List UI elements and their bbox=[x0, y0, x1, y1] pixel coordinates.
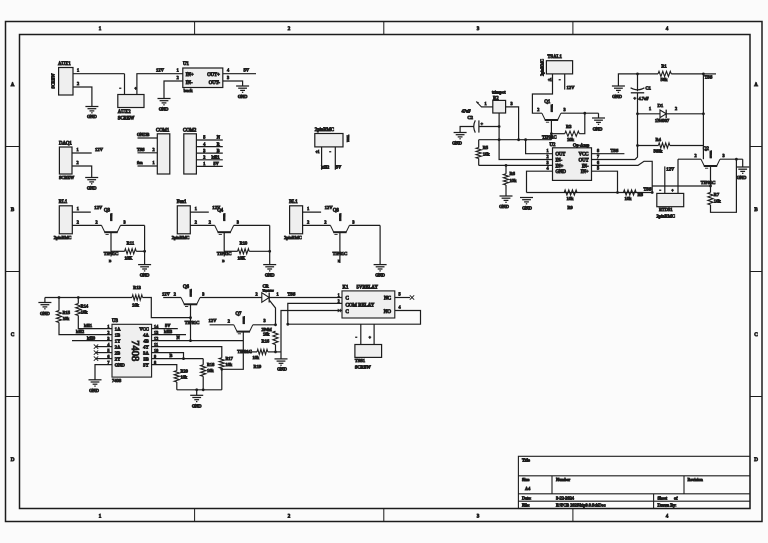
svg-text:2pinRMC: 2pinRMC bbox=[657, 213, 675, 218]
svg-text:TIP31C: TIP31C bbox=[550, 105, 552, 113]
svg-text:2pinRMC: 2pinRMC bbox=[540, 59, 545, 76]
svg-text:2: 2 bbox=[324, 219, 326, 224]
svg-text:Title: Title bbox=[522, 458, 530, 463]
wire Q6 collector 12V bbox=[162, 291, 181, 297]
svg-text:GND: GND bbox=[612, 94, 622, 99]
ground (Q2) bbox=[736, 159, 749, 180]
svg-text:kill1: kill1 bbox=[212, 155, 220, 160]
svg-text:2: 2 bbox=[203, 155, 205, 160]
svg-text:10k: 10k bbox=[510, 178, 518, 183]
ground (DAQ1) bbox=[85, 178, 98, 191]
svg-text:10k: 10k bbox=[63, 316, 70, 321]
resistor R5 10k bbox=[476, 140, 490, 166]
wire relay pin4 NO loop bbox=[288, 304, 421, 324]
wire Q1 emitter to ground bbox=[561, 107, 599, 113]
svg-text:560k: 560k bbox=[654, 149, 664, 154]
wire Q7 base bbox=[242, 332, 244, 352]
wire AUX1 pin2 to ground bbox=[73, 81, 92, 107]
svg-text:4A: 4A bbox=[143, 332, 149, 337]
wire left rail mid bbox=[637, 93, 639, 146]
ground (resistor bus) bbox=[190, 390, 203, 409]
wire Q2 collector bbox=[678, 153, 701, 159]
wire 2pinRMC pin2 5V bbox=[335, 147, 342, 170]
svg-text:1: 1 bbox=[195, 206, 197, 211]
svg-text:GND: GND bbox=[115, 362, 126, 367]
svg-text:kill2: kill2 bbox=[321, 164, 329, 169]
svg-text:trimpot: trimpot bbox=[492, 90, 506, 95]
junction right rail / D1 bbox=[702, 112, 705, 115]
wire BL1 pin2 to transistor bbox=[303, 219, 331, 225]
junction Q1 emitter / R3 bbox=[583, 112, 586, 115]
svg-text:kill1: kill1 bbox=[84, 323, 92, 328]
svg-text:OUT-: OUT- bbox=[209, 81, 220, 86]
wire U3 pin9 net B to R18 bbox=[152, 353, 204, 358]
svg-text:A: A bbox=[11, 83, 15, 88]
junction left rail / D1 bbox=[636, 112, 639, 115]
svg-text:NO: NO bbox=[384, 310, 392, 315]
junction bus/R14 bbox=[77, 296, 80, 299]
svg-text:5V: 5V bbox=[244, 68, 250, 73]
svg-text:R: R bbox=[217, 141, 220, 146]
junction bus/R2 pin3 bbox=[517, 138, 520, 141]
wire rail to ground (RL1) bbox=[144, 225, 146, 264]
wire relay pin5 NC no-connect bbox=[395, 291, 414, 299]
svg-text:7408: 7408 bbox=[129, 340, 140, 361]
svg-text:GND: GND bbox=[277, 366, 287, 371]
U2 pin3 number bbox=[547, 160, 549, 165]
wire U2 pin8 VCC TSS bbox=[592, 148, 625, 154]
wire COM2 pin 4 net R bbox=[196, 141, 223, 146]
connector BL1 (2pinRMC) bbox=[284, 200, 303, 240]
svg-text:R9: R9 bbox=[567, 205, 573, 210]
svg-text:TIP31C: TIP31C bbox=[242, 317, 244, 325]
wire Q4 base lead bbox=[222, 232, 225, 263]
svg-text:RL1: RL1 bbox=[59, 200, 68, 205]
wire U3 pin11 to R17 bbox=[152, 347, 222, 358]
wire U2 pin5 to feedback node bbox=[592, 166, 618, 193]
svg-text:1: 1 bbox=[338, 293, 340, 297]
wire resistor bottom bus bbox=[177, 389, 222, 391]
svg-text:R8: R8 bbox=[638, 192, 644, 197]
resistor R10 10K bbox=[224, 240, 270, 260]
svg-text:3: 3 bbox=[124, 219, 126, 224]
connector COM2 bbox=[183, 128, 197, 174]
ground (U3) bbox=[89, 380, 102, 393]
svg-text:1: 1 bbox=[307, 206, 309, 211]
svg-text:2: 2 bbox=[209, 219, 211, 224]
wire R13 link to Q6 base bbox=[143, 298, 191, 318]
junction bus/R18 bbox=[202, 388, 205, 391]
svg-text:kill3: kill3 bbox=[164, 329, 173, 334]
wire rail to ground (BL1) bbox=[379, 225, 381, 264]
svg-text:B: B bbox=[217, 148, 220, 153]
svg-text:7: 7 bbox=[107, 360, 109, 365]
svg-text:4B: 4B bbox=[143, 338, 148, 343]
junction Q2 base / TSS net bbox=[709, 185, 712, 188]
svg-text:1: 1 bbox=[107, 324, 109, 329]
svg-text:Q7: Q7 bbox=[236, 312, 242, 317]
wire U2 pin7 OUT to rail bbox=[592, 146, 638, 160]
svg-text:R20: R20 bbox=[181, 369, 189, 374]
wire U2 pin6 to Q2 base net bbox=[592, 160, 653, 193]
svg-text:OUT+: OUT+ bbox=[207, 73, 220, 78]
junction Q2 emitter / loop bbox=[735, 158, 738, 161]
svg-text:2: 2 bbox=[177, 75, 179, 80]
ground (Fan1 driver) bbox=[263, 265, 276, 278]
svg-text:Revision: Revision bbox=[688, 477, 704, 482]
connector DAQ1 (screw) bbox=[59, 142, 75, 180]
svg-text:2: 2 bbox=[77, 160, 79, 165]
svg-text:COM1: COM1 bbox=[156, 128, 170, 133]
wire top rail with ground bbox=[618, 74, 637, 86]
svg-text:10k: 10k bbox=[253, 355, 260, 360]
svg-text:C1: C1 bbox=[646, 85, 652, 90]
wire AUX1 pin1 to AUX2 pin1 bbox=[73, 68, 125, 95]
wire RTD51 pin1 12V bbox=[665, 166, 675, 193]
ground (C2) bbox=[452, 133, 466, 146]
wire U3 pin13 kill3 bbox=[152, 329, 186, 334]
wire TSS1 pin1 bbox=[356, 324, 361, 344]
svg-text:Date:: Date: bbox=[522, 495, 531, 500]
wire R2 pin2 down to C2 node bbox=[498, 113, 500, 140]
junction R1 right / TSS bbox=[702, 73, 705, 76]
transistor Q3 (RL1 driver, TIP31C) bbox=[102, 209, 121, 256]
junction pin6/feedback bbox=[651, 191, 654, 194]
svg-text:AUX1: AUX1 bbox=[58, 62, 71, 67]
svg-text:3: 3 bbox=[107, 336, 109, 341]
ground (R6) bbox=[499, 196, 512, 209]
svg-text:IN+: IN+ bbox=[556, 164, 564, 169]
resistor R3 10k bbox=[551, 113, 584, 142]
svg-text:IN+: IN+ bbox=[186, 73, 194, 78]
junction bus/R15 bbox=[58, 296, 61, 299]
svg-text:D: D bbox=[754, 458, 758, 463]
svg-text:R14: R14 bbox=[81, 304, 89, 309]
svg-text:SCREW: SCREW bbox=[118, 116, 135, 121]
svg-text:1A: 1A bbox=[115, 326, 121, 331]
wire U1 OUT- to ground bbox=[223, 75, 243, 86]
svg-text:10k: 10k bbox=[181, 374, 188, 379]
wire Q3 collector to right rail bbox=[121, 219, 145, 225]
svg-text:COM RELAY: COM RELAY bbox=[346, 303, 375, 308]
svg-text:1: 1 bbox=[77, 147, 79, 152]
junction pin10/pin9 wires bbox=[182, 357, 185, 360]
svg-text:12V: 12V bbox=[209, 318, 218, 323]
svg-text:3: 3 bbox=[237, 219, 239, 224]
svg-text:2: 2 bbox=[228, 319, 230, 324]
ground (top rail) bbox=[612, 86, 625, 99]
svg-text:TIP31C: TIP31C bbox=[185, 320, 200, 325]
svg-text:TIP31C: TIP31C bbox=[338, 214, 340, 222]
svg-text:2: 2 bbox=[107, 330, 109, 335]
connector RL1 (2pinRMC) bbox=[54, 200, 73, 240]
svg-text:NC: NC bbox=[384, 297, 392, 302]
resistor R4 560k bbox=[638, 137, 704, 154]
svg-text:BL1: BL1 bbox=[289, 200, 298, 205]
wire R2 pin1 bbox=[481, 101, 493, 107]
title block text bbox=[522, 458, 704, 508]
svg-text:Fan1: Fan1 bbox=[177, 200, 187, 205]
ground (Q1) bbox=[592, 113, 605, 131]
wire TSS stub (R1) bbox=[703, 74, 716, 80]
svg-text:1: 1 bbox=[649, 106, 651, 111]
transistor Q2 (TIP31C) bbox=[701, 147, 720, 185]
svg-text:R2: R2 bbox=[493, 96, 499, 101]
svg-text:5: 5 bbox=[399, 291, 401, 296]
svg-text:1: 1 bbox=[153, 160, 155, 165]
svg-text:2: 2 bbox=[174, 291, 176, 296]
svg-text:of: of bbox=[674, 495, 678, 500]
svg-text:2: 2 bbox=[195, 219, 197, 224]
wire U2 pin1 from bus bbox=[526, 140, 553, 154]
svg-text:12V: 12V bbox=[95, 147, 104, 152]
wire right rail bbox=[702, 74, 704, 159]
wire Q4 collector to right rail bbox=[234, 219, 270, 225]
wire RL1 pin2 to transistor bbox=[72, 219, 101, 225]
svg-text:1: 1 bbox=[203, 161, 205, 166]
svg-text:TSS: TSS bbox=[644, 186, 652, 191]
resistor R11 10K bbox=[111, 240, 145, 260]
svg-text:R16: R16 bbox=[262, 338, 270, 343]
resistor R8 10k bbox=[623, 186, 651, 201]
wire Q2 base bbox=[710, 166, 712, 192]
svg-text:12V: 12V bbox=[567, 85, 576, 90]
resistor R17 10k bbox=[219, 356, 233, 390]
junction left rail / R4 bbox=[636, 144, 639, 147]
svg-text:GND: GND bbox=[40, 311, 50, 316]
svg-text:6: 6 bbox=[107, 354, 109, 359]
svg-text:10k: 10k bbox=[714, 198, 722, 203]
title block frame bbox=[518, 456, 750, 508]
wire Q3 base lead bbox=[109, 232, 112, 263]
connector RTD51 (2pinRMC) bbox=[657, 188, 684, 219]
resistor R9 10k bbox=[564, 190, 577, 210]
ground (U2 pin4) bbox=[520, 198, 533, 211]
svg-text:IN+: IN+ bbox=[581, 170, 589, 175]
svg-text:C2: C2 bbox=[468, 115, 474, 120]
svg-text:2: 2 bbox=[547, 154, 549, 159]
wire U3 pin6 no-connect bbox=[94, 356, 112, 360]
wire Q2 emitter to ground bbox=[720, 153, 743, 159]
svg-text:R4: R4 bbox=[656, 137, 662, 142]
svg-text:TSS1: TSS1 bbox=[355, 358, 366, 363]
svg-text:1: 1 bbox=[177, 68, 179, 73]
svg-text:SCREW: SCREW bbox=[355, 364, 371, 369]
svg-text:2A: 2A bbox=[115, 344, 121, 349]
wire C2 negative to ground bbox=[460, 127, 474, 133]
wire ground bus (section C) bbox=[45, 297, 132, 299]
svg-text:4.7uF: 4.7uF bbox=[639, 96, 650, 101]
svg-text:+: + bbox=[672, 189, 674, 193]
junction bus/R2 wiper bbox=[498, 138, 501, 141]
junction R2 pin2 / C2 bbox=[498, 125, 501, 128]
svg-text:R19: R19 bbox=[254, 364, 262, 369]
svg-text:2pinRMC: 2pinRMC bbox=[315, 128, 334, 133]
svg-text:D1: D1 bbox=[658, 103, 664, 108]
svg-text:1: 1 bbox=[77, 206, 79, 211]
svg-text:10k: 10k bbox=[483, 152, 491, 157]
svg-text:AUX2: AUX2 bbox=[118, 110, 131, 115]
svg-text:4Y: 4Y bbox=[143, 344, 149, 349]
op-amp U2 bbox=[550, 143, 592, 181]
svg-text:R3: R3 bbox=[566, 124, 572, 129]
svg-text:Q6: Q6 bbox=[183, 285, 189, 290]
svg-text:A4: A4 bbox=[525, 486, 531, 491]
svg-text:GND: GND bbox=[737, 175, 747, 180]
junction top-left rail bbox=[636, 73, 639, 76]
svg-text:2pinRMC: 2pinRMC bbox=[54, 235, 72, 240]
wire COM1 pin TSS 2 bbox=[137, 147, 157, 153]
svg-text:56k: 56k bbox=[661, 77, 669, 82]
svg-text:VCC: VCC bbox=[139, 326, 148, 331]
ground (U1 output) bbox=[236, 86, 249, 99]
resistor R16 2P4M-gate 10k bbox=[262, 327, 279, 352]
wire COM2 pin 3 net B bbox=[196, 148, 223, 153]
connector AUX2 (screw) bbox=[118, 86, 144, 122]
svg-text:12V: 12V bbox=[94, 205, 103, 210]
svg-text:5V: 5V bbox=[213, 161, 219, 166]
transistor Q7 (TIP31C) bbox=[234, 312, 253, 354]
svg-text:R18: R18 bbox=[207, 362, 215, 367]
junction bus/U2 pin1 bbox=[524, 138, 527, 141]
wire COM2 pin 1 net 5V bbox=[196, 161, 223, 166]
junction R13/Q6 base bbox=[189, 316, 192, 319]
svg-text:GND: GND bbox=[375, 273, 385, 278]
svg-text:12V: 12V bbox=[162, 291, 171, 296]
svg-text:2: 2 bbox=[77, 81, 79, 86]
svg-text:GNDB: GNDB bbox=[137, 132, 150, 137]
wire rail to ground (Fan1) bbox=[269, 225, 271, 264]
svg-text:3-22-2024: 3-22-2024 bbox=[556, 495, 575, 500]
svg-text:GND: GND bbox=[556, 170, 567, 175]
svg-text:IN-: IN- bbox=[186, 81, 193, 86]
svg-text:TIP31C: TIP31C bbox=[110, 214, 112, 222]
resistor R7 10k bbox=[708, 159, 737, 212]
junction relay pin2/NO loop bbox=[286, 323, 289, 326]
svg-text:GND: GND bbox=[238, 94, 248, 99]
svg-text:IN-: IN- bbox=[582, 164, 589, 169]
wire AUX2 pin2 to U1 IN+ (12V) bbox=[137, 68, 183, 95]
svg-text:3: 3 bbox=[203, 148, 205, 153]
svg-text:fan: fan bbox=[137, 160, 143, 165]
svg-text:TIP31C: TIP31C bbox=[189, 289, 191, 297]
wire COM2 pin 2 net kill1 bbox=[196, 155, 223, 160]
transistor Q4 (Fan1 driver, TIP31C) bbox=[215, 209, 234, 256]
svg-text:U3: U3 bbox=[112, 319, 118, 324]
svg-text:buck: buck bbox=[184, 88, 194, 93]
wire Q8 collector to right rail bbox=[349, 219, 380, 225]
wire TSAL1 pin2 12V bbox=[565, 74, 575, 90]
svg-text:10K: 10K bbox=[124, 256, 133, 261]
svg-text:3: 3 bbox=[511, 101, 513, 106]
svg-text:U1: U1 bbox=[183, 62, 189, 67]
wire Q6 emitter to CR anode bbox=[200, 291, 262, 297]
svg-text:1: 1 bbox=[77, 68, 79, 73]
wire DAQ1 pin2 to ground bbox=[72, 160, 92, 178]
resistor R1 56k bbox=[638, 63, 704, 82]
svg-text:10k: 10k bbox=[226, 362, 233, 367]
svg-text:5: 5 bbox=[597, 166, 599, 171]
connector AUX1 (screw) bbox=[51, 62, 74, 95]
svg-text:GND: GND bbox=[522, 206, 532, 211]
svg-text:Number: Number bbox=[556, 477, 571, 482]
junction R17/base link bbox=[220, 368, 223, 371]
svg-text:TIP31C: TIP31C bbox=[701, 180, 716, 185]
wire U3 pin4 no-connect bbox=[94, 344, 112, 348]
svg-text:5V: 5V bbox=[336, 164, 342, 169]
svg-text:1Y: 1Y bbox=[115, 338, 121, 343]
svg-text:3B: 3B bbox=[143, 356, 148, 361]
resistor R15 10k bbox=[56, 298, 112, 335]
svg-text:1: 1 bbox=[485, 101, 487, 106]
wire TSAL1 pin1 to Q1 collector bbox=[532, 74, 552, 113]
wire analog bus (R5 top to Q1 base) bbox=[479, 139, 552, 141]
thyristor CR (2P4M) bbox=[256, 283, 279, 302]
wire BL1 pin1 12V bbox=[303, 205, 334, 212]
connector TSAL1 (2pinRMC) bbox=[540, 55, 573, 82]
wire C2 positive to node bbox=[479, 126, 499, 128]
svg-text:+1: +1 bbox=[316, 150, 320, 154]
wire feedback bottom bbox=[527, 192, 653, 194]
svg-text:2: 2 bbox=[695, 153, 697, 158]
transistor Q6 (TIP31C) bbox=[181, 285, 200, 325]
svg-text:3: 3 bbox=[547, 160, 549, 165]
wire U3 pin3 kill0 bbox=[72, 335, 112, 340]
wire COM1 pin GNDB bbox=[137, 132, 157, 138]
wire U2 pin4 GND to ground bbox=[527, 166, 553, 193]
svg-text:GND: GND bbox=[159, 107, 169, 112]
wire TSS1 pin2 bbox=[369, 324, 374, 344]
capacitor C1 4.7uF bbox=[631, 85, 652, 101]
svg-text:1B: 1B bbox=[115, 332, 120, 337]
svg-text:10k: 10k bbox=[625, 196, 633, 201]
ground (RL1 driver) bbox=[138, 265, 151, 278]
svg-text:R15: R15 bbox=[63, 310, 71, 315]
svg-text:+: + bbox=[369, 335, 371, 339]
resistor R14 10k bbox=[76, 298, 112, 329]
svg-text:R5: R5 bbox=[483, 145, 489, 150]
connector COM1 bbox=[156, 128, 170, 174]
junction pin5/feedback bbox=[616, 191, 619, 194]
svg-text:8: 8 bbox=[597, 148, 599, 153]
svg-text:1: 1 bbox=[277, 291, 279, 296]
svg-text:Sheet: Sheet bbox=[658, 495, 668, 500]
svg-text:5VRELAY: 5VRELAY bbox=[357, 285, 379, 290]
svg-text:File:: File: bbox=[522, 503, 530, 508]
svg-text:10k: 10k bbox=[567, 196, 575, 201]
junction R5/R6 bbox=[505, 164, 508, 167]
wire Q8 base lead bbox=[338, 232, 341, 263]
svg-text:R10: R10 bbox=[240, 240, 248, 245]
svg-text:Q8: Q8 bbox=[333, 209, 339, 214]
svg-text:R11: R11 bbox=[127, 240, 135, 245]
wire U3 pin14 5V bbox=[152, 323, 178, 329]
diode D1 1N4007 bbox=[638, 103, 704, 123]
svg-text:kill2: kill2 bbox=[76, 329, 84, 334]
wire RTD51 pin2 to Q2 collector bbox=[677, 159, 679, 193]
svg-text:GND: GND bbox=[265, 273, 275, 278]
svg-text:2: 2 bbox=[675, 106, 677, 111]
wire left rail upper bbox=[637, 74, 639, 91]
ground (AUX1) bbox=[85, 107, 98, 120]
svg-text:GND: GND bbox=[89, 388, 99, 393]
svg-text:R1: R1 bbox=[661, 63, 667, 68]
svg-text:GND: GND bbox=[593, 127, 603, 132]
svg-text:RTD51: RTD51 bbox=[659, 207, 673, 212]
svg-text:OUT: OUT bbox=[556, 153, 566, 158]
wire COM2 pin 5 net N bbox=[196, 135, 223, 140]
svg-text:2: 2 bbox=[307, 219, 309, 224]
